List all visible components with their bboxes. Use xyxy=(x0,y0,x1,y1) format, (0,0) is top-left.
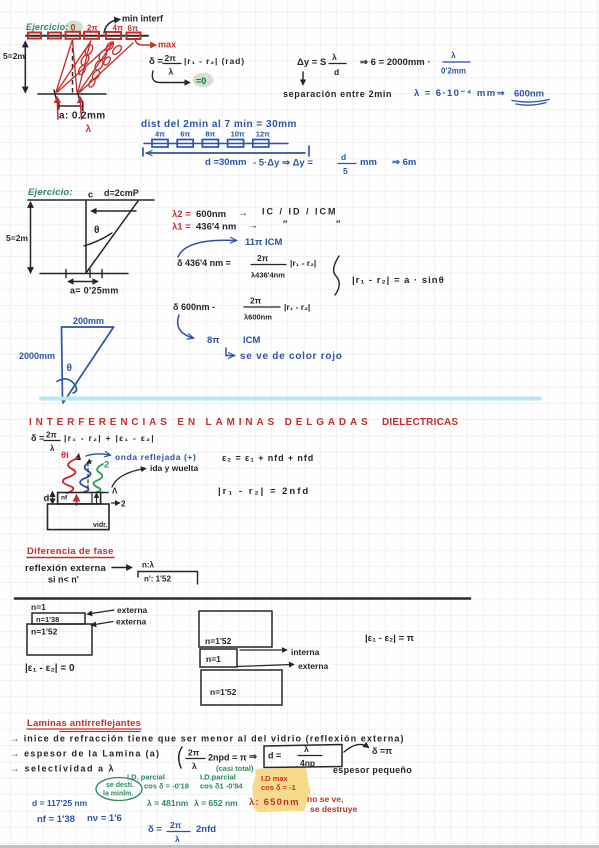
svg-text:ICM: ICM xyxy=(243,335,261,346)
svg-text:θi: θi xyxy=(61,450,69,461)
svg-text:5=2m: 5=2m xyxy=(3,51,25,61)
svg-text:δ =: δ = xyxy=(149,56,163,67)
svg-text:|r₁ - r₂| = 2nfd: |r₁ - r₂| = 2nfd xyxy=(218,486,310,497)
svg-text:6π: 6π xyxy=(180,130,190,139)
svg-text:→ espesor de la Lamina (a): → espesor de la Lamina (a) xyxy=(10,749,160,759)
svg-text:δ =π: δ =π xyxy=(372,746,392,756)
svg-text:λ = 652 nm: λ = 652 nm xyxy=(194,798,238,808)
svg-text:λ600nm: λ600nm xyxy=(244,313,272,322)
svg-text:2npd = π: 2npd = π xyxy=(208,753,247,763)
svg-text:″: ″ xyxy=(283,219,288,229)
svg-text:Δy = S: Δy = S xyxy=(297,57,326,68)
svg-text:|r₁ - r₂|: |r₁ - r₂| xyxy=(290,258,316,268)
svg-text:c: c xyxy=(88,190,93,200)
svg-text:max: max xyxy=(158,40,176,50)
svg-text:d: d xyxy=(334,67,339,77)
svg-text:|ε₁ - ε₂| = 0: |ε₁ - ε₂| = 0 xyxy=(25,663,75,674)
svg-text:8π: 8π xyxy=(205,130,215,139)
svg-text:d =: d = xyxy=(268,751,281,761)
svg-text:2000mm: 2000mm xyxy=(19,351,55,361)
svg-text:436'4 nm: 436'4 nm xyxy=(196,222,236,233)
svg-text:λ: λ xyxy=(304,744,309,754)
svg-text:2π: 2π xyxy=(165,53,177,63)
svg-text:nν = 1'6: nν = 1'6 xyxy=(87,813,122,824)
svg-text:4np: 4np xyxy=(300,758,315,768)
svg-text:5=2m: 5=2m xyxy=(6,233,28,243)
svg-text:δ 600nm -: δ 600nm - xyxy=(173,302,215,312)
svg-text:4π: 4π xyxy=(155,130,165,139)
svg-text:2π: 2π xyxy=(170,820,182,830)
svg-text:interna: interna xyxy=(291,647,320,657)
svg-text:DIELECTRICAS: DIELECTRICAS xyxy=(382,417,458,428)
svg-text:a= 0'25mm: a= 0'25mm xyxy=(70,286,119,296)
svg-text:2nfd: 2nfd xyxy=(196,824,216,835)
svg-text:⇒ 6m: ⇒ 6m xyxy=(392,157,416,168)
svg-text:vidr.: vidr. xyxy=(93,522,107,529)
svg-text:d =30mm: d =30mm xyxy=(205,157,246,168)
svg-text:λ: λ xyxy=(175,834,180,844)
svg-text:⇒: ⇒ xyxy=(249,752,258,763)
svg-text:d: d xyxy=(341,152,346,162)
svg-text:n=1'52: n=1'52 xyxy=(210,687,237,697)
svg-text:Laminas antirreflejantes: Laminas antirreflejantes xyxy=(27,718,141,729)
svg-text:θ: θ xyxy=(67,363,72,374)
svg-text:mm: mm xyxy=(360,157,377,168)
svg-text:d = 117'25 nm: d = 117'25 nm xyxy=(32,798,88,808)
svg-text:cos δ1 -0'84: cos δ1 -0'84 xyxy=(200,782,243,791)
svg-text:n=1'38: n=1'38 xyxy=(36,615,59,624)
svg-text:600nm: 600nm xyxy=(196,209,226,220)
svg-text:se desti.: se desti. xyxy=(106,782,134,789)
svg-text:λ: 650nm: λ: 650nm xyxy=(249,797,300,808)
svg-text:2π: 2π xyxy=(250,296,262,306)
svg-text:INTERFERENCIAS EN LAMINAS DELG: INTERFERENCIAS EN LAMINAS DELGADAS xyxy=(29,417,372,428)
svg-text:λ2 =: λ2 = xyxy=(172,209,191,220)
svg-text:|r₁ - r₂| = a · sinθ: |r₁ - r₂| = a · sinθ xyxy=(352,275,445,286)
svg-text:δ =: δ = xyxy=(31,433,44,443)
svg-text:ε₂ = ε₁ + nfd + nfd: ε₂ = ε₁ + nfd + nfd xyxy=(222,453,314,463)
svg-text:espesor pequeño: espesor pequeño xyxy=(333,765,412,775)
svg-text:n=1'52: n=1'52 xyxy=(31,627,58,637)
svg-text:cos δ = -1: cos δ = -1 xyxy=(261,783,296,792)
svg-text:λ: λ xyxy=(332,52,337,62)
svg-text:- 5·Δy ⇒ Δy =: - 5·Δy ⇒ Δy = xyxy=(253,158,313,169)
svg-text:n:λ: n:λ xyxy=(142,561,155,570)
svg-text:200mm: 200mm xyxy=(73,316,104,326)
svg-text:⇒ 6 = 2000mm ·: ⇒ 6 = 2000mm · xyxy=(360,57,431,68)
svg-text:2π: 2π xyxy=(188,748,200,758)
svg-text:externa: externa xyxy=(116,617,147,627)
svg-text:|r₁ - r₂|: |r₁ - r₂| xyxy=(284,302,310,312)
svg-text:Diferencia de fase: Diferencia de fase xyxy=(27,546,114,557)
svg-text:cos δ = -0'18: cos δ = -0'18 xyxy=(144,782,189,791)
svg-text:λ: λ xyxy=(169,67,174,77)
svg-text:n': 1'52: n': 1'52 xyxy=(144,575,171,584)
svg-text:ida y wuelta: ida y wuelta xyxy=(150,463,198,473)
svg-text:δ =: δ = xyxy=(148,824,162,835)
svg-text:→: → xyxy=(248,221,258,232)
svg-text:→: → xyxy=(238,208,248,219)
svg-text:10π: 10π xyxy=(231,130,245,139)
svg-text:min interf: min interf xyxy=(122,14,164,24)
svg-text:Λ: Λ xyxy=(112,487,118,496)
svg-text:se destruye: se destruye xyxy=(310,804,358,814)
svg-text:δ 436'4 nm =: δ 436'4 nm = xyxy=(177,258,231,268)
svg-text:separación entre 2min: separación entre 2min xyxy=(283,89,392,99)
svg-text:d: d xyxy=(44,493,50,504)
svg-text:onda reflejada (+): onda reflejada (+) xyxy=(115,452,196,462)
svg-text:n=1'52: n=1'52 xyxy=(205,636,232,646)
svg-text:Ejercicio:: Ejercicio: xyxy=(28,187,73,198)
svg-text:600nm: 600nm xyxy=(514,89,544,100)
svg-text:″: ″ xyxy=(336,219,341,229)
svg-text:dist del 2min al 7 min = 30mm: dist del 2min al 7 min = 30mm xyxy=(141,119,297,130)
svg-text:Ejercicio:: Ejercicio: xyxy=(26,22,69,32)
svg-text:2π: 2π xyxy=(257,253,269,263)
svg-text:externa: externa xyxy=(298,661,329,671)
svg-text:a: 0.2mm: a: 0.2mm xyxy=(59,111,106,122)
svg-text:λ = 6·10⁻⁴ mm: λ = 6·10⁻⁴ mm xyxy=(414,88,497,99)
svg-text:→ inice de refracción tiene qu: → inice de refracción tiene que ser meno… xyxy=(10,734,405,744)
svg-text:|r₁ - r₂| + |ε₁ - ε₂|: |r₁ - r₂| + |ε₁ - ε₂| xyxy=(64,433,155,443)
svg-text:si n< n': si n< n' xyxy=(48,575,79,585)
svg-text:0'2mm: 0'2mm xyxy=(441,67,466,76)
svg-text:⇒: ⇒ xyxy=(497,88,505,98)
svg-text:no se ve,: no se ve, xyxy=(307,794,343,804)
svg-text:nf: nf xyxy=(61,495,68,502)
svg-text:n=1: n=1 xyxy=(31,602,46,612)
svg-text:λ436'4nm: λ436'4nm xyxy=(251,271,285,280)
svg-text:n=1: n=1 xyxy=(206,654,221,664)
svg-text:nf = 1'38: nf = 1'38 xyxy=(37,814,75,825)
svg-text:|ε₁ - ε₂| = π: |ε₁ - ε₂| = π xyxy=(365,633,415,644)
svg-text:I.D max: I.D max xyxy=(261,774,289,783)
svg-text:I.D.parcial: I.D.parcial xyxy=(200,773,236,782)
svg-text:2π: 2π xyxy=(46,431,57,440)
svg-text:la minlm.: la minlm. xyxy=(103,791,133,798)
svg-text:8π: 8π xyxy=(207,335,220,346)
svg-text:externa: externa xyxy=(117,605,148,615)
svg-text:2: 2 xyxy=(104,460,109,471)
svg-text:λ1 =: λ1 = xyxy=(172,222,191,233)
svg-text:2: 2 xyxy=(121,500,126,509)
svg-text:λ: λ xyxy=(86,124,92,135)
svg-text:→ selectividad a λ: → selectividad a λ xyxy=(10,764,115,774)
svg-text:λ: λ xyxy=(50,444,55,453)
svg-text:=0: =0 xyxy=(196,76,206,86)
svg-text:IC / ID / ICM: IC / ID / ICM xyxy=(262,207,338,217)
svg-text:11π ICM: 11π ICM xyxy=(245,237,282,248)
svg-text:θ: θ xyxy=(94,225,99,236)
svg-text:λ: λ xyxy=(451,50,456,60)
svg-text:|r₁ - r₂| (rad): |r₁ - r₂| (rad) xyxy=(184,56,245,66)
svg-text:λ = 481nm: λ = 481nm xyxy=(147,798,189,808)
svg-text:se ve de color rojo: se ve de color rojo xyxy=(240,351,343,362)
svg-text:d=2cmP: d=2cmP xyxy=(104,188,139,198)
svg-text:λ: λ xyxy=(192,761,197,771)
svg-text:reflexión externa: reflexión externa xyxy=(25,563,107,574)
svg-text:12π: 12π xyxy=(256,130,270,139)
svg-text:5: 5 xyxy=(343,166,348,176)
